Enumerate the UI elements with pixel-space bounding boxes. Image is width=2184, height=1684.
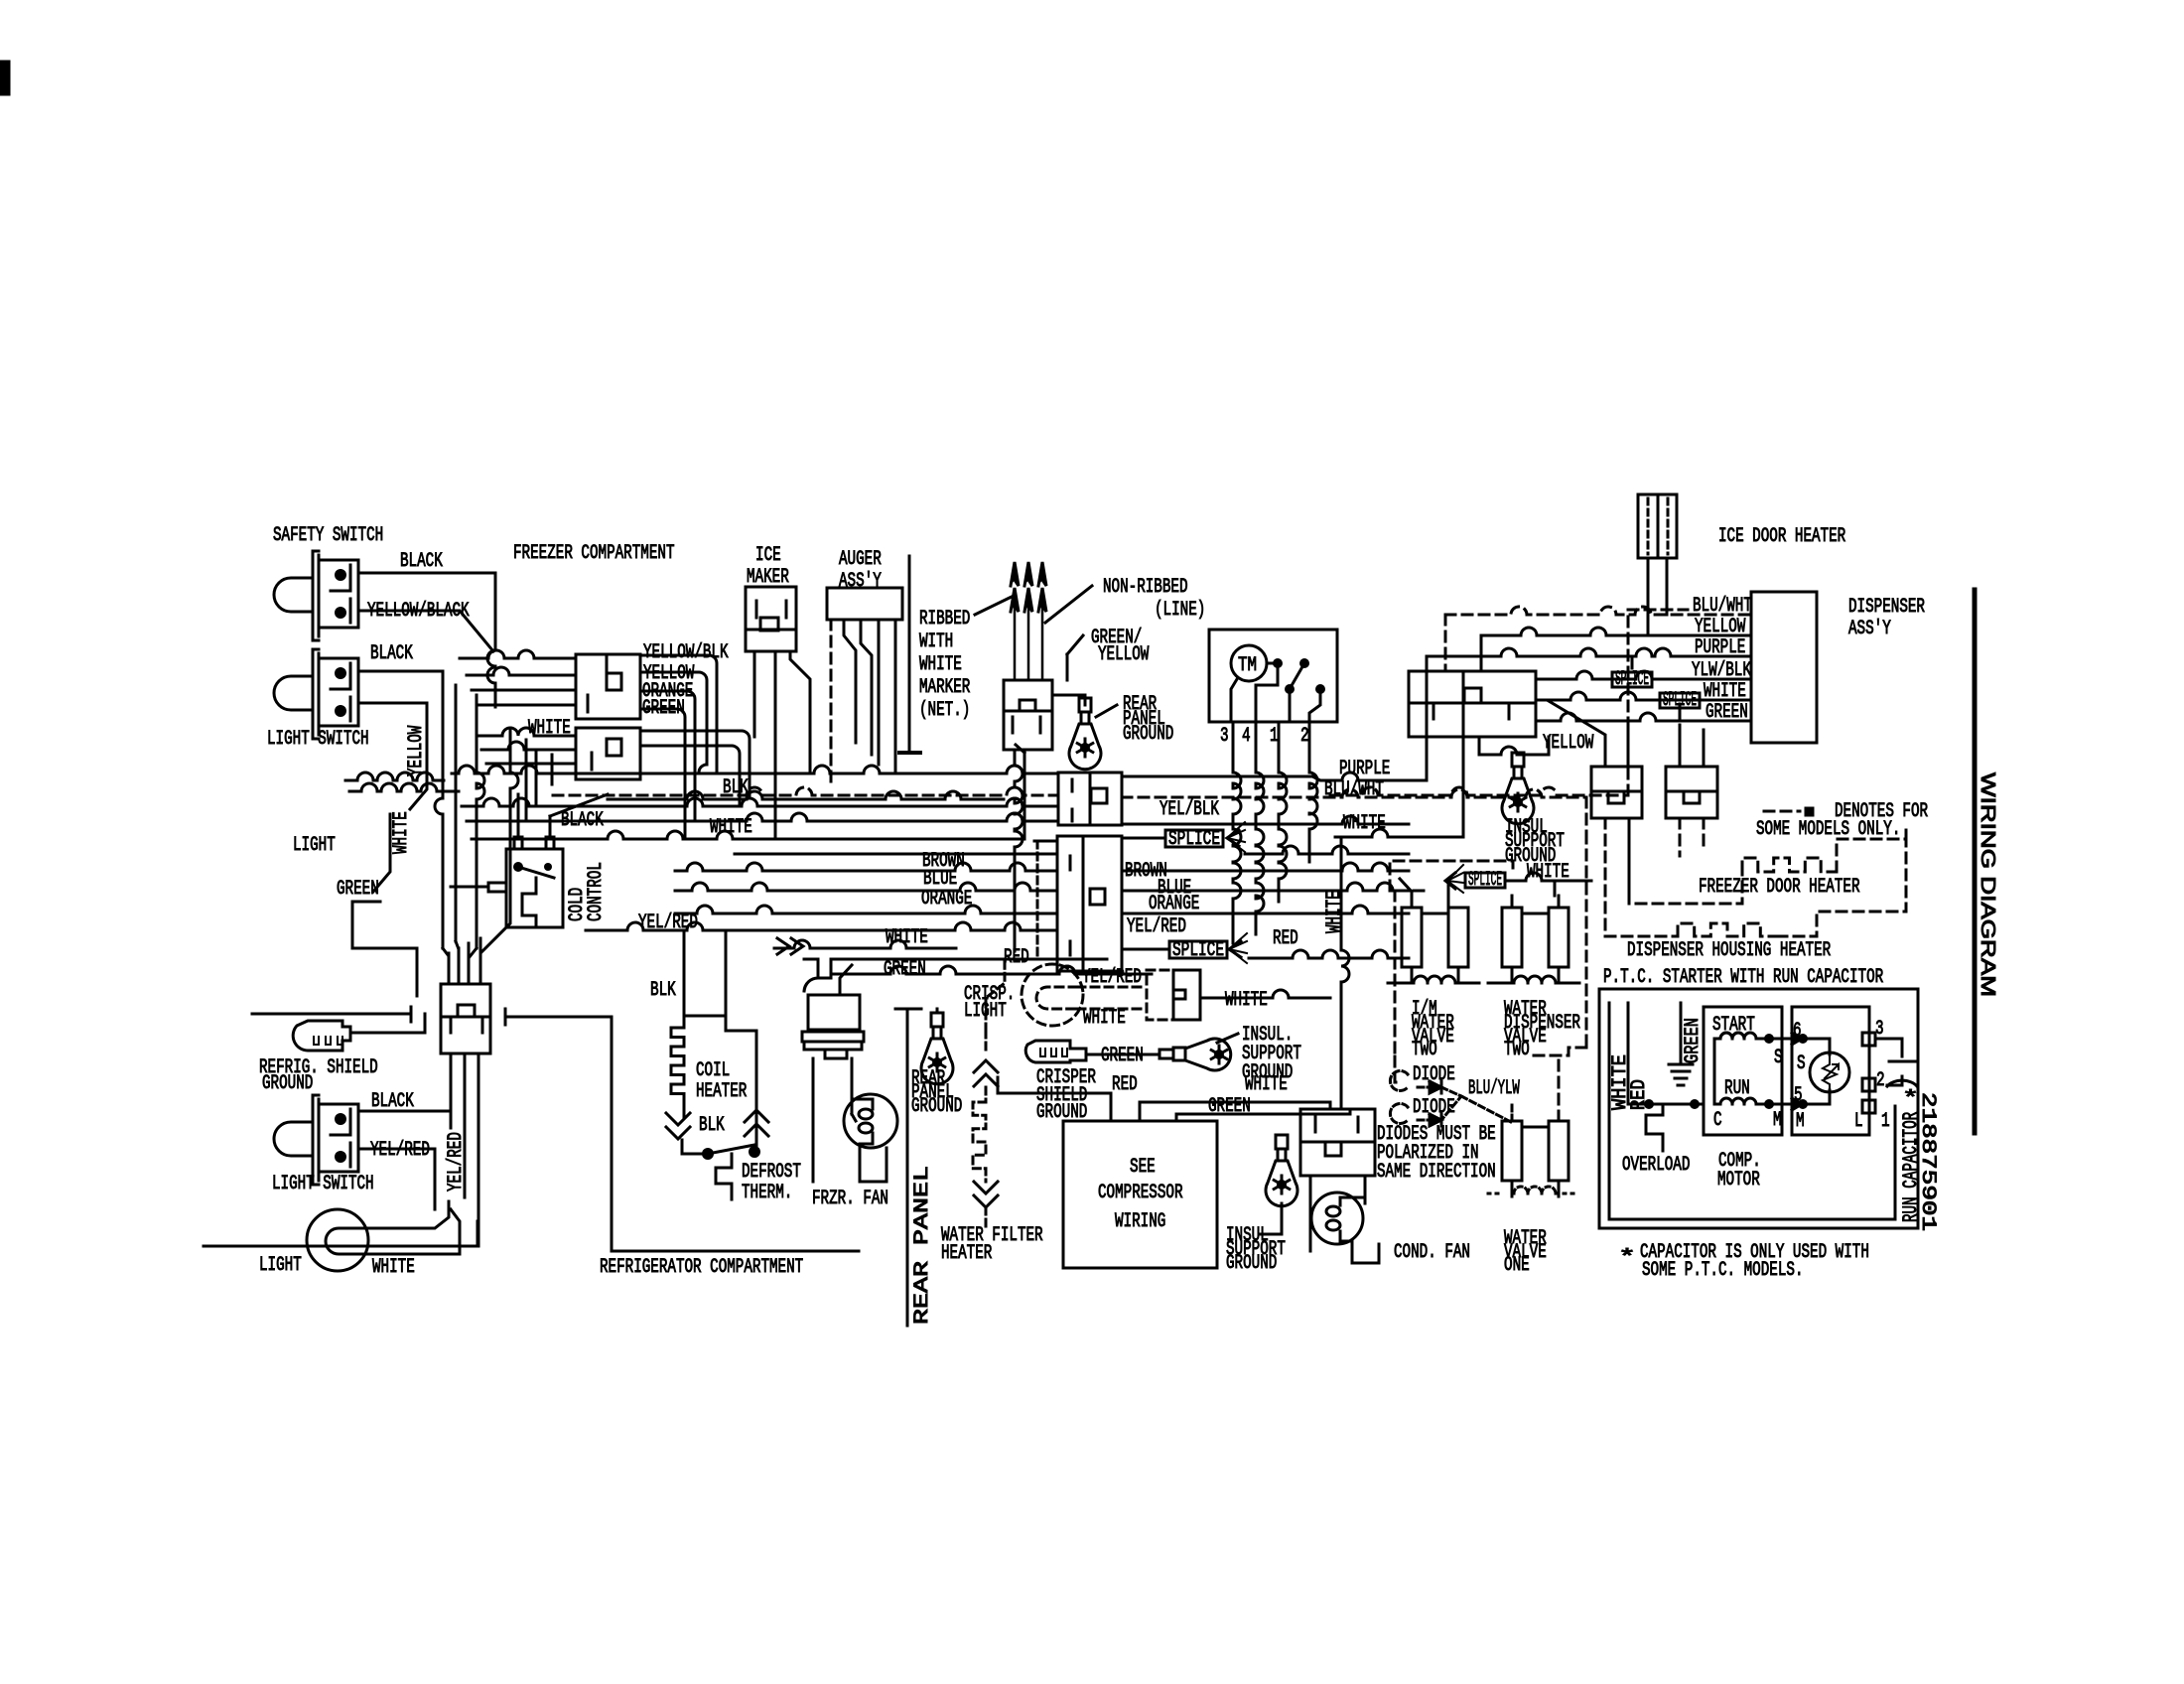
wire U4 to SP2 (1122, 948, 1169, 951)
svg-text:RUN: RUN (1724, 1077, 1750, 1100)
svg-text:GROUND: GROUND (1123, 723, 1173, 746)
central connector U2 (1409, 671, 1536, 737)
svg-text:MARKER: MARKER (919, 676, 970, 699)
connector C2 freezer (576, 728, 640, 779)
splice SP5 (1660, 693, 1700, 708)
insul support ground G4 (1160, 1050, 1173, 1058)
svg-text:SAME DIRECTION: SAME DIRECTION (1377, 1161, 1496, 1184)
svg-text:HEATER: HEATER (696, 1080, 747, 1103)
svg-text:1: 1 (1270, 725, 1279, 748)
wires into C2 from left (477, 728, 576, 736)
svg-text:DISPENSER: DISPENSER (1848, 596, 1925, 619)
connector U3 refrig (441, 984, 490, 1053)
svg-text:BLACK: BLACK (370, 642, 413, 665)
splice SP6 (1465, 873, 1505, 888)
svg-text:WHITE: WHITE (1343, 812, 1386, 835)
freezer fan (804, 978, 831, 991)
refrig compartment divider (612, 1017, 859, 1251)
crisper shield ground lug (1025, 1041, 1086, 1062)
wires above freezer fan (804, 959, 818, 978)
splice dashed enclosure (1390, 861, 1513, 891)
coil heater (683, 933, 686, 1028)
wire from U1 right to purple jog (1122, 775, 1312, 778)
svg-text:WIRING DIAGRAM: WIRING DIAGRAM (1977, 772, 1998, 997)
wire from shield lug (350, 1032, 425, 1035)
svg-text:THERM.: THERM. (742, 1182, 792, 1204)
connector U1 harness (1058, 772, 1122, 825)
svg-text:BLK: BLK (650, 979, 676, 1002)
svg-text:P.T.C. STARTER WITH RUN CAPACI: P.T.C. STARTER WITH RUN CAPACITOR (1603, 966, 1883, 989)
svg-text:COMPRESSOR: COMPRESSOR (1098, 1182, 1183, 1204)
svg-text:S: S (1774, 1047, 1783, 1069)
rear panel ground G3 (931, 1013, 943, 1027)
svg-text:DISPENSER HOUSING HEATER: DISPENSER HOUSING HEATER (1627, 939, 1831, 962)
svg-text:C: C (1713, 1109, 1722, 1132)
svg-text:YELLOW: YELLOW (1098, 643, 1149, 666)
denotes-for-some-models legend (1764, 810, 1800, 813)
splice SP4 (1612, 672, 1652, 687)
svg-text:SEE: SEE (1130, 1156, 1156, 1179)
water filter heater dashed (985, 1031, 988, 1052)
svg-text:ASS'Y: ASS'Y (839, 570, 882, 593)
svg-text:FREEZER DOOR HEATER: FREEZER DOOR HEATER (1699, 876, 1860, 899)
svg-text:LIGHT SWITCH: LIGHT SWITCH (272, 1173, 374, 1195)
svg-text:GROUND: GROUND (911, 1095, 962, 1118)
svg-text:YEL/RED: YEL/RED (445, 1132, 468, 1192)
arrows double (777, 938, 789, 954)
wires above V2 (1400, 879, 1412, 908)
svg-text:NON-RIBBED: NON-RIBBED (1103, 576, 1188, 599)
connector U4 harness tall (1057, 836, 1122, 971)
edge mark (0, 62, 9, 94)
svg-text:PURPLE: PURPLE (1339, 758, 1390, 780)
wire BLACK S3 (358, 1111, 451, 1128)
cond fan motor (1309, 1176, 1312, 1251)
svg-text:WHITE: WHITE (919, 653, 962, 676)
svg-text:YELLOW: YELLOW (1695, 616, 1745, 638)
svg-text:HEATER: HEATER (941, 1242, 992, 1265)
svg-text:YELLOW: YELLOW (405, 726, 428, 776)
junction wires below light switch area (345, 772, 444, 780)
svg-text:BLU/YLW: BLU/YLW (1468, 1077, 1520, 1100)
svg-text:SPLICE: SPLICE (1172, 939, 1224, 962)
rear panel divider (895, 1008, 921, 1011)
overload (1644, 1099, 1654, 1109)
svg-text:CONTROL: CONTROL (585, 862, 608, 921)
wires above cond fan (1329, 1102, 1332, 1109)
svg-text:GREEN: GREEN (1682, 1018, 1705, 1063)
insul support ground G5 (1276, 1135, 1288, 1149)
svg-text:GREEN: GREEN (1706, 701, 1748, 724)
PTC resistor circle (1810, 1052, 1849, 1092)
cond fan connector (1300, 1109, 1375, 1142)
dispenser assy (1751, 592, 1817, 743)
water dispenser valve V3 (1502, 908, 1522, 967)
svg-text:BLU/WHT: BLU/WHT (1693, 595, 1752, 618)
wires into PTC pins (1769, 1038, 1803, 1041)
svg-text:*: * (1618, 1247, 1636, 1270)
wires above K1 K2 (1549, 701, 1605, 767)
svg-text:TM: TM (1238, 654, 1257, 677)
svg-text:COND. FAN: COND. FAN (1394, 1241, 1470, 1264)
svg-text:YEL/BLK: YEL/BLK (1160, 798, 1219, 821)
wires above V1 dashed (1511, 1104, 1514, 1121)
PTC starter box (1792, 1007, 1869, 1135)
wires below K1 K2 dashed (1604, 818, 1607, 933)
svg-text:WHITE: WHITE (390, 811, 413, 854)
wire green/yellow to rear panel ground (1066, 654, 1069, 680)
wire to cold control (517, 794, 520, 837)
wires from light L2 (368, 1201, 449, 1228)
wires to splices (1631, 656, 1634, 668)
refrig shield ground lug (293, 1021, 350, 1051)
svg-text:WHITE: WHITE (372, 1256, 415, 1279)
wires diodes to valve one (1441, 1087, 1461, 1120)
svg-text:RIBBED: RIBBED (919, 608, 970, 631)
crisper connector (1147, 970, 1173, 1020)
svg-text:SOME P.T.C. MODELS.: SOME P.T.C. MODELS. (1642, 1259, 1804, 1282)
svg-text:GROUND: GROUND (1226, 1252, 1277, 1275)
splice SP1 with fan (1165, 830, 1223, 847)
svg-text:GREEN: GREEN (884, 958, 926, 981)
svg-text:(NET.): (NET.) (919, 699, 970, 722)
relay K1 (1591, 767, 1642, 818)
svg-text:ASS'Y: ASS'Y (1848, 618, 1891, 640)
svg-text:M: M (1773, 1109, 1782, 1132)
svg-text:M: M (1796, 1110, 1805, 1133)
wires top of U2 going up (1426, 656, 1429, 671)
pin below M square (1862, 1100, 1875, 1113)
svg-text:GROUND: GROUND (262, 1072, 313, 1095)
svg-text:WITH: WITH (919, 631, 953, 653)
wire terminal line left (252, 1013, 411, 1016)
svg-text:WIRING: WIRING (1115, 1210, 1165, 1233)
svg-text:SPLICE: SPLICE (1168, 828, 1220, 851)
wire tick right of U3 (504, 1009, 507, 1025)
svg-text:FRZR. FAN: FRZR. FAN (812, 1188, 888, 1210)
svg-text:2: 2 (1876, 1069, 1885, 1092)
wire runs right of SP1 (1245, 846, 1409, 854)
svg-text:RED: RED (1273, 927, 1298, 950)
svg-text:BLACK: BLACK (400, 550, 443, 573)
light L2 (307, 1209, 368, 1271)
power cord lines (1014, 596, 1017, 680)
svg-text:SPLICE: SPLICE (1468, 869, 1502, 892)
svg-text:GREEN: GREEN (337, 878, 379, 901)
comp motor box (1704, 1007, 1782, 1135)
wire bundle verticals left (455, 685, 458, 941)
svg-text:RED: RED (1112, 1073, 1138, 1096)
pin 2 square (1862, 1078, 1875, 1091)
wires from auger down (830, 620, 833, 788)
wires C2 right side (640, 731, 750, 795)
svg-text:LIGHT: LIGHT (293, 834, 336, 857)
svg-text:REAR PANEL: REAR PANEL (911, 1166, 934, 1325)
svg-text:(LINE): (LINE) (1155, 599, 1205, 622)
insul support ground G2 (1512, 753, 1524, 767)
svg-text:LIGHT: LIGHT (259, 1254, 302, 1277)
svg-text:218875901: 218875901 (1916, 1092, 1939, 1231)
svg-text:OVERLOAD: OVERLOAD (1622, 1154, 1690, 1177)
timer TM box (1209, 630, 1337, 722)
compressor wiring box (1063, 1121, 1217, 1268)
wiring diagram title vertical (1973, 590, 1978, 1133)
svg-text:YLW/BLK: YLW/BLK (1692, 659, 1751, 682)
svg-text:ONE: ONE (1504, 1254, 1530, 1277)
wires above U3 (448, 953, 451, 984)
net divider line (908, 556, 911, 753)
svg-text:4: 4 (1242, 725, 1251, 748)
connector C1 freezer (576, 654, 640, 719)
svg-text:1: 1 (1881, 1110, 1890, 1133)
svg-text:MOTOR: MOTOR (1717, 1169, 1760, 1192)
wire to G3 (936, 1009, 939, 1013)
pin 3 square and capacitor (1862, 1033, 1875, 1046)
svg-text:YEL/RED: YEL/RED (1127, 915, 1186, 938)
defrost thermostat (684, 1153, 708, 1156)
timer pin wires down (1233, 722, 1241, 943)
svg-text:ICE DOOR HEATER: ICE DOOR HEATER (1718, 525, 1845, 548)
svg-text:YELLOW: YELLOW (1543, 732, 1593, 755)
rear panel ground G1 (1079, 698, 1091, 712)
svg-text:SPLICE: SPLICE (1615, 668, 1649, 691)
svg-text:3: 3 (1220, 725, 1229, 748)
wire YEL/RED run (586, 922, 1057, 930)
svg-text:2: 2 (1300, 725, 1309, 748)
wires at right of U2 to dispenser bundle (1445, 607, 1751, 615)
svg-text:PURPLE: PURPLE (1695, 636, 1745, 659)
wires C1 right elbows down (640, 655, 717, 773)
wires below U3 to light switch (450, 1053, 453, 1128)
dashed wires to water valve one (1395, 1056, 1402, 1082)
splice SP2 with fan (1169, 941, 1227, 958)
svg-text:S: S (1797, 1052, 1806, 1075)
svg-text:DEFROST: DEFROST (742, 1161, 801, 1184)
wires from ice maker down (774, 651, 777, 839)
svg-text:FREEZER COMPARTMENT: FREEZER COMPARTMENT (513, 542, 675, 565)
power plug connector (1004, 680, 1052, 750)
svg-text:TWO: TWO (1504, 1039, 1530, 1061)
svg-text:AUGER: AUGER (839, 548, 882, 571)
I/M water valve V2 (1402, 908, 1422, 967)
coil heater right branch (684, 933, 726, 1016)
svg-text:WHITE: WHITE (1704, 680, 1746, 703)
svg-text:WHITE: WHITE (1225, 989, 1268, 1012)
wire bundle horizontal runs (452, 766, 1058, 773)
run capacitor wire (1894, 1106, 1897, 1219)
svg-text:BLK: BLK (699, 1114, 725, 1137)
svg-text:ICE: ICE (755, 544, 781, 567)
dashed box some models water valves (1394, 891, 1397, 1056)
svg-text:REFRIGERATOR COMPARTMENT: REFRIGERATOR COMPARTMENT (600, 1256, 803, 1279)
svg-text:LIGHT: LIGHT (964, 1000, 1007, 1023)
svg-text:SAFETY SWITCH: SAFETY SWITCH (273, 524, 383, 547)
svg-text:WHITE: WHITE (1245, 1073, 1288, 1096)
wire dashed top elbow water filter (986, 961, 1005, 1031)
wires above V3 (1511, 896, 1514, 908)
water valve one V1 (1502, 1121, 1522, 1181)
svg-text:COIL: COIL (696, 1059, 730, 1082)
svg-text:TWO: TWO (1412, 1039, 1437, 1061)
PTC outer box (1599, 989, 1918, 1228)
wires into C1 from left (460, 650, 576, 658)
wire U4 to SP1 (1122, 837, 1165, 840)
relay K2 (1666, 767, 1717, 818)
wires from ice door heater down (1647, 558, 1650, 635)
svg-text:WHITE: WHITE (1323, 891, 1346, 933)
